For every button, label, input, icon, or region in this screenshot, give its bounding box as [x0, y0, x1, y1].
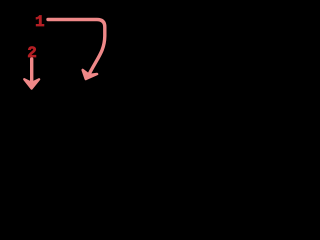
arrow 2 head — [24, 79, 39, 88]
svg-text:1: 1 — [35, 13, 45, 31]
arrow 1 shaft (right then curving down-left) — [48, 20, 105, 77]
arrow 2 shaft (straight down) — [30, 59, 33, 84]
background — [0, 0, 120, 120]
arrow 1 head — [83, 70, 97, 79]
